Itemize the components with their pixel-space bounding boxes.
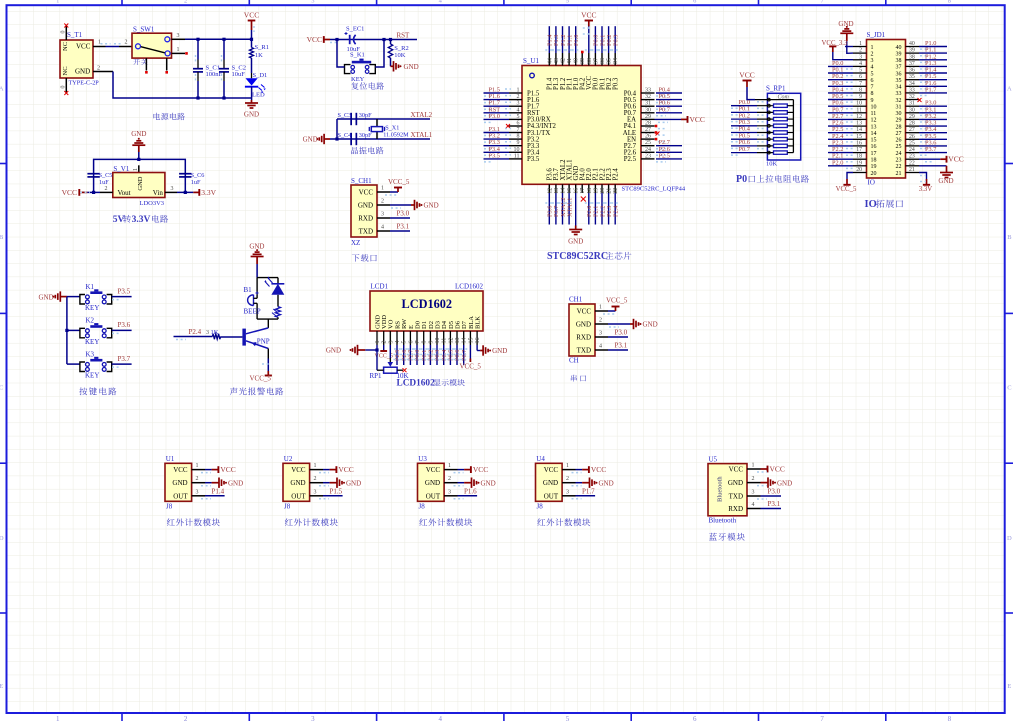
svg-text:GND: GND — [131, 130, 146, 138]
pin 10 LCD D3 — [436, 331, 438, 345]
connector S_CH1 download — [351, 185, 377, 237]
button K2 KEY — [67, 329, 80, 331]
svg-text:LCD1602: LCD1602 — [397, 379, 436, 389]
pin 3 serial RXD — [595, 336, 608, 338]
pin 2 U3 GND — [444, 482, 457, 484]
wire alarm top node — [257, 277, 278, 279]
svg-text:23: 23 — [896, 158, 902, 164]
svg-text:P0.7: P0.7 — [739, 146, 750, 153]
wire T1 GND to bottom rail — [93, 71, 113, 73]
svg-text:19: 19 — [856, 160, 862, 166]
svg-text:IO: IO — [868, 179, 875, 187]
svg-text:1: 1 — [859, 41, 862, 47]
capacitor S_C1 100nF — [197, 40, 199, 60]
svg-text:29: 29 — [645, 114, 651, 120]
svg-text:Vout: Vout — [118, 189, 131, 197]
svg-text:3: 3 — [871, 58, 874, 64]
pin 9 LCD D2 — [429, 331, 431, 345]
svg-text:26: 26 — [645, 134, 651, 140]
svg-text:17: 17 — [871, 151, 877, 157]
pin 13 LCD D6 — [456, 331, 458, 345]
label alarm circuit — [230, 387, 283, 395]
transistor PNP — [242, 329, 246, 346]
svg-text:A: A — [0, 86, 4, 93]
svg-text:S_RP1: S_RP1 — [766, 85, 786, 93]
svg-text:22: 22 — [896, 164, 902, 170]
label IR counter module 1 — [167, 518, 220, 526]
svg-text:5: 5 — [402, 341, 408, 344]
svg-text:24: 24 — [645, 147, 651, 153]
svg-text:3: 3 — [196, 489, 199, 495]
svg-text:OUT: OUT — [426, 492, 441, 500]
regulator S_V1 LDO3V3 — [113, 173, 165, 198]
resistor RP1 element P0.7 — [731, 152, 757, 154]
label download port — [352, 254, 377, 262]
wire reset rail — [330, 39, 417, 41]
svg-text:2: 2 — [97, 66, 100, 72]
svg-text:S_JD1: S_JD1 — [867, 31, 886, 39]
svg-text:10: 10 — [871, 105, 877, 111]
svg-text:P1.5: P1.5 — [330, 487, 343, 495]
pin 1 S_SW1 — [172, 52, 186, 54]
svg-text:GND: GND — [543, 479, 558, 487]
wire crystal bottom rail XTAL1 — [330, 138, 430, 140]
svg-text:S_EC1: S_EC1 — [346, 26, 364, 33]
pin 0 top of S_T1 — [65, 25, 67, 41]
svg-text:U5: U5 — [709, 455, 718, 463]
svg-text:2: 2 — [448, 476, 451, 482]
svg-text:11.0592M: 11.0592M — [383, 132, 409, 139]
svg-text:13: 13 — [554, 188, 560, 194]
svg-text:S_T1: S_T1 — [67, 31, 83, 39]
svg-text:VCC_5: VCC_5 — [250, 375, 272, 383]
svg-text:CH1: CH1 — [569, 296, 583, 304]
svg-text:OUT: OUT — [544, 492, 559, 500]
svg-text:VCC: VCC — [729, 466, 744, 474]
svg-text:2: 2 — [105, 186, 108, 192]
svg-text:Bluetooth: Bluetooth — [709, 517, 737, 525]
svg-text:4: 4 — [381, 225, 384, 231]
svg-text:B1: B1 — [244, 286, 253, 294]
svg-text:TXD: TXD — [359, 228, 373, 236]
label IR counter module 3 — [419, 518, 472, 526]
svg-text:P2.0: P2.0 — [832, 159, 843, 166]
svg-text:A: A — [1007, 86, 1012, 93]
pin 1 LCD GND — [376, 331, 378, 345]
pin 4 U5 RXD — [747, 508, 761, 510]
svg-text:3: 3 — [566, 489, 569, 495]
svg-text:P3.0: P3.0 — [489, 113, 500, 120]
svg-text:VCC: VCC — [173, 466, 188, 474]
svg-text:TXD: TXD — [729, 493, 743, 501]
switch S_SW1 — [132, 33, 172, 58]
svg-text:TYPE-C-2P: TYPE-C-2P — [69, 80, 100, 87]
svg-text:12: 12 — [856, 114, 862, 120]
svg-text:19: 19 — [593, 188, 599, 194]
wire VO to pot wiper — [389, 345, 391, 358]
resistor S_R2 10K — [390, 40, 392, 45]
label STC89C52RC main chip — [547, 251, 631, 262]
svg-text:RXD: RXD — [728, 505, 743, 513]
ground GND mcu — [575, 226, 577, 230]
pin 8 LCD D1 — [423, 331, 425, 345]
svg-text:8: 8 — [517, 134, 520, 140]
svg-text:J8: J8 — [537, 503, 544, 511]
svg-text:GND: GND — [492, 347, 507, 355]
svg-text:BEEP: BEEP — [244, 308, 261, 316]
svg-text:XTAL1: XTAL1 — [411, 131, 433, 139]
svg-text:4: 4 — [859, 61, 862, 67]
svg-text:K3: K3 — [86, 350, 95, 358]
svg-text:15: 15 — [468, 338, 474, 344]
svg-text:P3.7: P3.7 — [118, 355, 131, 363]
wire VCC to RP1 com — [747, 87, 755, 100]
svg-text:33: 33 — [896, 91, 902, 97]
svg-text:2: 2 — [125, 40, 128, 46]
svg-text:25: 25 — [896, 144, 902, 150]
svg-text:P1.0: P1.0 — [573, 35, 580, 46]
wire gnd to rail — [138, 152, 140, 159]
capacitor S_C5 1uF — [87, 173, 99, 175]
svg-text:1uF: 1uF — [191, 179, 201, 186]
svg-text:1K: 1K — [255, 52, 263, 59]
svg-text:30: 30 — [645, 107, 651, 113]
svg-text:PNP: PNP — [257, 337, 270, 345]
wire crystal left vertical — [336, 119, 338, 139]
svg-text:OUT: OUT — [291, 492, 306, 500]
crystal S_X1 11.0592M — [376, 119, 378, 126]
svg-text:GND: GND — [39, 293, 54, 301]
svg-text:10: 10 — [514, 147, 520, 153]
svg-text:5: 5 — [517, 114, 520, 120]
svg-text:25: 25 — [909, 140, 915, 146]
pin 3 U3 OUT — [444, 495, 457, 497]
svg-text:1: 1 — [177, 47, 180, 53]
pin 3 U4 OUT — [562, 495, 575, 497]
svg-text:28: 28 — [896, 124, 902, 130]
pin 7 LCD D0 — [416, 331, 418, 345]
pin 6 LCD E — [409, 331, 411, 345]
svg-text:3: 3 — [171, 186, 174, 192]
svg-text:Vin: Vin — [153, 189, 164, 197]
svg-text:GND: GND — [244, 111, 259, 119]
svg-text:17: 17 — [856, 147, 862, 153]
svg-text:6: 6 — [408, 341, 414, 344]
svg-text:29: 29 — [896, 118, 902, 124]
svg-text:XZ: XZ — [351, 239, 360, 247]
svg-text:35: 35 — [909, 74, 915, 80]
svg-text:LDO3V3: LDO3V3 — [140, 200, 165, 207]
svg-text:GND: GND — [303, 136, 318, 144]
svg-text:P3.1: P3.1 — [397, 223, 410, 231]
svg-text:VCC: VCC — [577, 308, 592, 316]
svg-text:8: 8 — [871, 91, 874, 97]
svg-text:3: 3 — [177, 33, 180, 39]
ground GND serial — [630, 323, 634, 325]
svg-text:U2: U2 — [284, 455, 293, 463]
pin 1 CH1 VCC — [377, 191, 390, 193]
svg-text:6: 6 — [693, 715, 697, 721]
svg-text:4: 4 — [395, 341, 401, 344]
pin 1 S_T1 VCC — [93, 46, 106, 48]
capacitor S_C4 30pF — [350, 133, 352, 145]
svg-text:13: 13 — [856, 121, 862, 127]
svg-text:37: 37 — [909, 61, 915, 67]
svg-text:P2.4: P2.4 — [613, 168, 620, 181]
svg-text:37: 37 — [896, 65, 902, 71]
svg-text:1: 1 — [517, 88, 520, 94]
svg-text:U4: U4 — [536, 455, 545, 463]
pin 5 S_SW1 bottom — [166, 58, 168, 70]
svg-text:30: 30 — [909, 107, 915, 113]
svg-text:VCC: VCC — [473, 465, 488, 474]
svg-text:3: 3 — [206, 330, 209, 336]
svg-text:LCD1602: LCD1602 — [402, 297, 453, 311]
resistor RP1 element P0.6 — [731, 145, 757, 147]
svg-text:KEY: KEY — [351, 76, 365, 83]
pin 3 U5 TXD — [747, 495, 761, 497]
pin 2 S_SW1 — [119, 46, 132, 48]
svg-text:40: 40 — [909, 41, 915, 47]
svg-text:16: 16 — [871, 144, 877, 150]
connector S_T1 TYPE-C-2P — [60, 40, 93, 78]
svg-text:Bluetooth: Bluetooth — [717, 476, 724, 502]
svg-text:NC: NC — [62, 42, 69, 51]
label serial port — [571, 375, 586, 382]
svg-text:RP1: RP1 — [370, 372, 383, 380]
svg-text:38: 38 — [587, 58, 593, 64]
pin 2 CH1 GND — [377, 204, 390, 206]
svg-text:P0.7: P0.7 — [659, 106, 670, 113]
svg-text:J8: J8 — [284, 503, 291, 511]
svg-text:12: 12 — [871, 118, 877, 124]
pin 2 U2 GND — [310, 482, 323, 484]
pin 1 U4 VCC — [562, 469, 575, 471]
pin 1 U3 VCC — [444, 469, 457, 471]
wire base net — [174, 336, 213, 338]
wire D1 to GND — [251, 87, 253, 100]
svg-text:CH: CH — [569, 357, 579, 365]
svg-text:1: 1 — [98, 40, 101, 46]
svg-text:4: 4 — [871, 65, 874, 71]
svg-text:10: 10 — [435, 338, 441, 344]
svg-text:VCC: VCC — [770, 465, 785, 474]
svg-text:1: 1 — [381, 186, 384, 192]
svg-text:VCC: VCC — [426, 466, 441, 474]
LED alarm — [277, 278, 279, 284]
svg-text:43: 43 — [554, 58, 560, 64]
svg-text:GND: GND — [643, 321, 658, 329]
svg-text:4: 4 — [438, 715, 442, 721]
svg-text:23: 23 — [909, 154, 915, 160]
ground GND reset — [391, 65, 394, 67]
capacitor S_EC1 10uF electrolytic — [349, 35, 351, 44]
svg-text:44: 44 — [547, 58, 553, 64]
svg-text:3: 3 — [381, 212, 384, 218]
ground GND jd1 right — [919, 165, 947, 167]
svg-text:3.3V: 3.3V — [132, 215, 151, 225]
pin 4 S_SW1 bottom — [145, 58, 147, 70]
no connect pin 32 jd1 — [918, 98, 922, 102]
svg-text:13: 13 — [871, 124, 877, 130]
svg-text:41: 41 — [567, 58, 573, 64]
svg-text:22: 22 — [613, 188, 619, 194]
svg-text:P3.6: P3.6 — [118, 321, 131, 329]
svg-text:S_C3: S_C3 — [338, 112, 352, 119]
wire VCC to R1 — [251, 30, 253, 44]
svg-text:11: 11 — [442, 338, 448, 344]
svg-text:27: 27 — [645, 127, 651, 133]
svg-text:2: 2 — [382, 341, 388, 344]
svg-text:7: 7 — [415, 341, 421, 344]
wire Vout to VCC — [87, 191, 100, 193]
pin 2 U1 GND — [192, 482, 205, 484]
svg-text:16: 16 — [475, 338, 481, 344]
svg-text:2: 2 — [381, 199, 384, 205]
label 5V to 3.3V circuit — [113, 215, 168, 225]
svg-text:2: 2 — [752, 476, 755, 482]
svg-text:XTAL1: XTAL1 — [566, 198, 573, 217]
svg-text:26: 26 — [896, 138, 902, 144]
svg-text:36: 36 — [600, 58, 606, 64]
wire reset right leg — [375, 40, 384, 68]
pin 12 LCD D5 — [449, 331, 451, 345]
svg-text:GND: GND — [576, 321, 591, 329]
pin 3 U1 OUT — [192, 495, 205, 497]
capacitor S_C3 30pF — [350, 113, 352, 125]
svg-text:3: 3 — [311, 0, 314, 5]
resistor RP1 element P0.4 — [731, 132, 757, 134]
capacitor S_C6 1uF — [179, 173, 191, 175]
svg-text:18: 18 — [856, 154, 862, 160]
svg-text:IO: IO — [865, 199, 877, 210]
svg-text:GND: GND — [777, 479, 792, 487]
button K3 KEY — [67, 363, 80, 365]
svg-text:6: 6 — [517, 121, 520, 127]
svg-text:3: 3 — [599, 331, 602, 337]
svg-text:P1.7: P1.7 — [925, 86, 936, 93]
svg-text:22: 22 — [909, 160, 915, 166]
svg-text:1uF: 1uF — [99, 179, 109, 186]
svg-text:3.3V: 3.3V — [201, 188, 216, 197]
svg-text:38: 38 — [896, 58, 902, 64]
svg-text:18: 18 — [871, 158, 877, 164]
svg-text:GND: GND — [290, 479, 305, 487]
svg-text:GND: GND — [326, 347, 341, 355]
label IO expansion port — [865, 199, 904, 210]
wire SW1 pin3 to VCC rail — [185, 38, 252, 40]
svg-text:P3.5: P3.5 — [118, 287, 131, 295]
ground GND download — [411, 204, 415, 206]
svg-text:P2.4: P2.4 — [613, 205, 620, 217]
svg-text:2: 2 — [859, 48, 862, 54]
svg-text:S_C4: S_C4 — [338, 132, 352, 139]
connector S_JD1 IO expansion — [867, 40, 906, 179]
svg-text:33: 33 — [909, 87, 915, 93]
svg-text:21: 21 — [607, 188, 613, 194]
svg-text:34: 34 — [896, 85, 902, 91]
svg-text:13: 13 — [455, 338, 461, 344]
svg-text:4: 4 — [517, 107, 520, 113]
svg-text:C: C — [0, 385, 3, 392]
resistor base 1K — [221, 336, 243, 338]
svg-text:KEY: KEY — [85, 338, 99, 346]
svg-text:VCC: VCC — [291, 466, 306, 474]
svg-text:10K: 10K — [766, 161, 778, 168]
svg-text:D: D — [1007, 535, 1012, 542]
svg-text:28: 28 — [645, 121, 651, 127]
svg-text:10: 10 — [856, 101, 862, 107]
svg-text:TXD: TXD — [577, 347, 591, 355]
svg-text:27: 27 — [896, 131, 902, 137]
pin 1 U5 VCC — [747, 468, 761, 470]
resistor RP1 element P0.1 — [731, 111, 757, 113]
svg-text:9: 9 — [517, 140, 520, 146]
svg-text:40: 40 — [896, 45, 902, 51]
svg-text:39: 39 — [909, 48, 915, 54]
svg-text:VCC: VCC — [338, 465, 353, 474]
svg-text:P3.7: P3.7 — [925, 146, 936, 153]
pin 3 LCD VO — [389, 331, 391, 345]
ground GND power circuit — [251, 100, 253, 103]
svg-text:1: 1 — [375, 341, 381, 344]
svg-text:5: 5 — [566, 715, 570, 721]
svg-text:9: 9 — [859, 94, 862, 100]
power port VCC_5 download — [397, 188, 399, 193]
svg-text:39: 39 — [580, 58, 586, 64]
svg-text:P3.1: P3.1 — [615, 342, 628, 350]
svg-text:C: C — [1007, 385, 1011, 392]
pin 5 LCD RW — [403, 331, 405, 345]
svg-text:LED: LED — [252, 91, 265, 98]
svg-text:6: 6 — [871, 78, 874, 84]
svg-text:GND: GND — [424, 202, 439, 210]
power VCC_5 lcd VDD — [383, 345, 385, 351]
svg-text:GND: GND — [346, 479, 361, 487]
svg-text:4: 4 — [599, 344, 602, 350]
potentiometer RP1 10K — [388, 362, 394, 367]
svg-text:VCC_5: VCC_5 — [836, 186, 857, 193]
resistor alarm photoresistor — [276, 307, 281, 318]
svg-text:1: 1 — [566, 463, 569, 469]
svg-text:9: 9 — [428, 341, 434, 344]
svg-text:GND: GND — [568, 238, 583, 246]
label P0 pullup circuit — [736, 174, 809, 185]
svg-text:26: 26 — [909, 134, 915, 140]
svg-text:3.3V: 3.3V — [919, 186, 932, 193]
capacitor S_C2 10uF — [223, 40, 225, 60]
pin 3 S_V1 Vin — [165, 191, 177, 193]
svg-text:16: 16 — [574, 188, 580, 194]
svg-text:K2: K2 — [86, 317, 95, 325]
svg-text:E: E — [1007, 683, 1011, 690]
pin 15 LCD BLA — [469, 331, 471, 345]
svg-text:8: 8 — [948, 715, 952, 721]
svg-text:STC89C52RC_LQFP44: STC89C52RC_LQFP44 — [622, 186, 686, 193]
label IR counter module 2 — [285, 518, 338, 526]
svg-text:S_R1: S_R1 — [255, 44, 269, 51]
module U1 IR counter — [165, 463, 192, 501]
svg-text:15: 15 — [856, 134, 862, 140]
svg-text:P3.0: P3.0 — [615, 329, 628, 337]
pin 2 serial GND — [595, 323, 608, 325]
svg-text:11: 11 — [856, 107, 862, 113]
svg-text:28: 28 — [909, 121, 915, 127]
left pins of U1 with net labels — [509, 92, 522, 94]
svg-text:P3.1: P3.1 — [768, 500, 781, 508]
svg-text:7: 7 — [820, 715, 824, 721]
svg-text:0: 0 — [60, 86, 66, 89]
